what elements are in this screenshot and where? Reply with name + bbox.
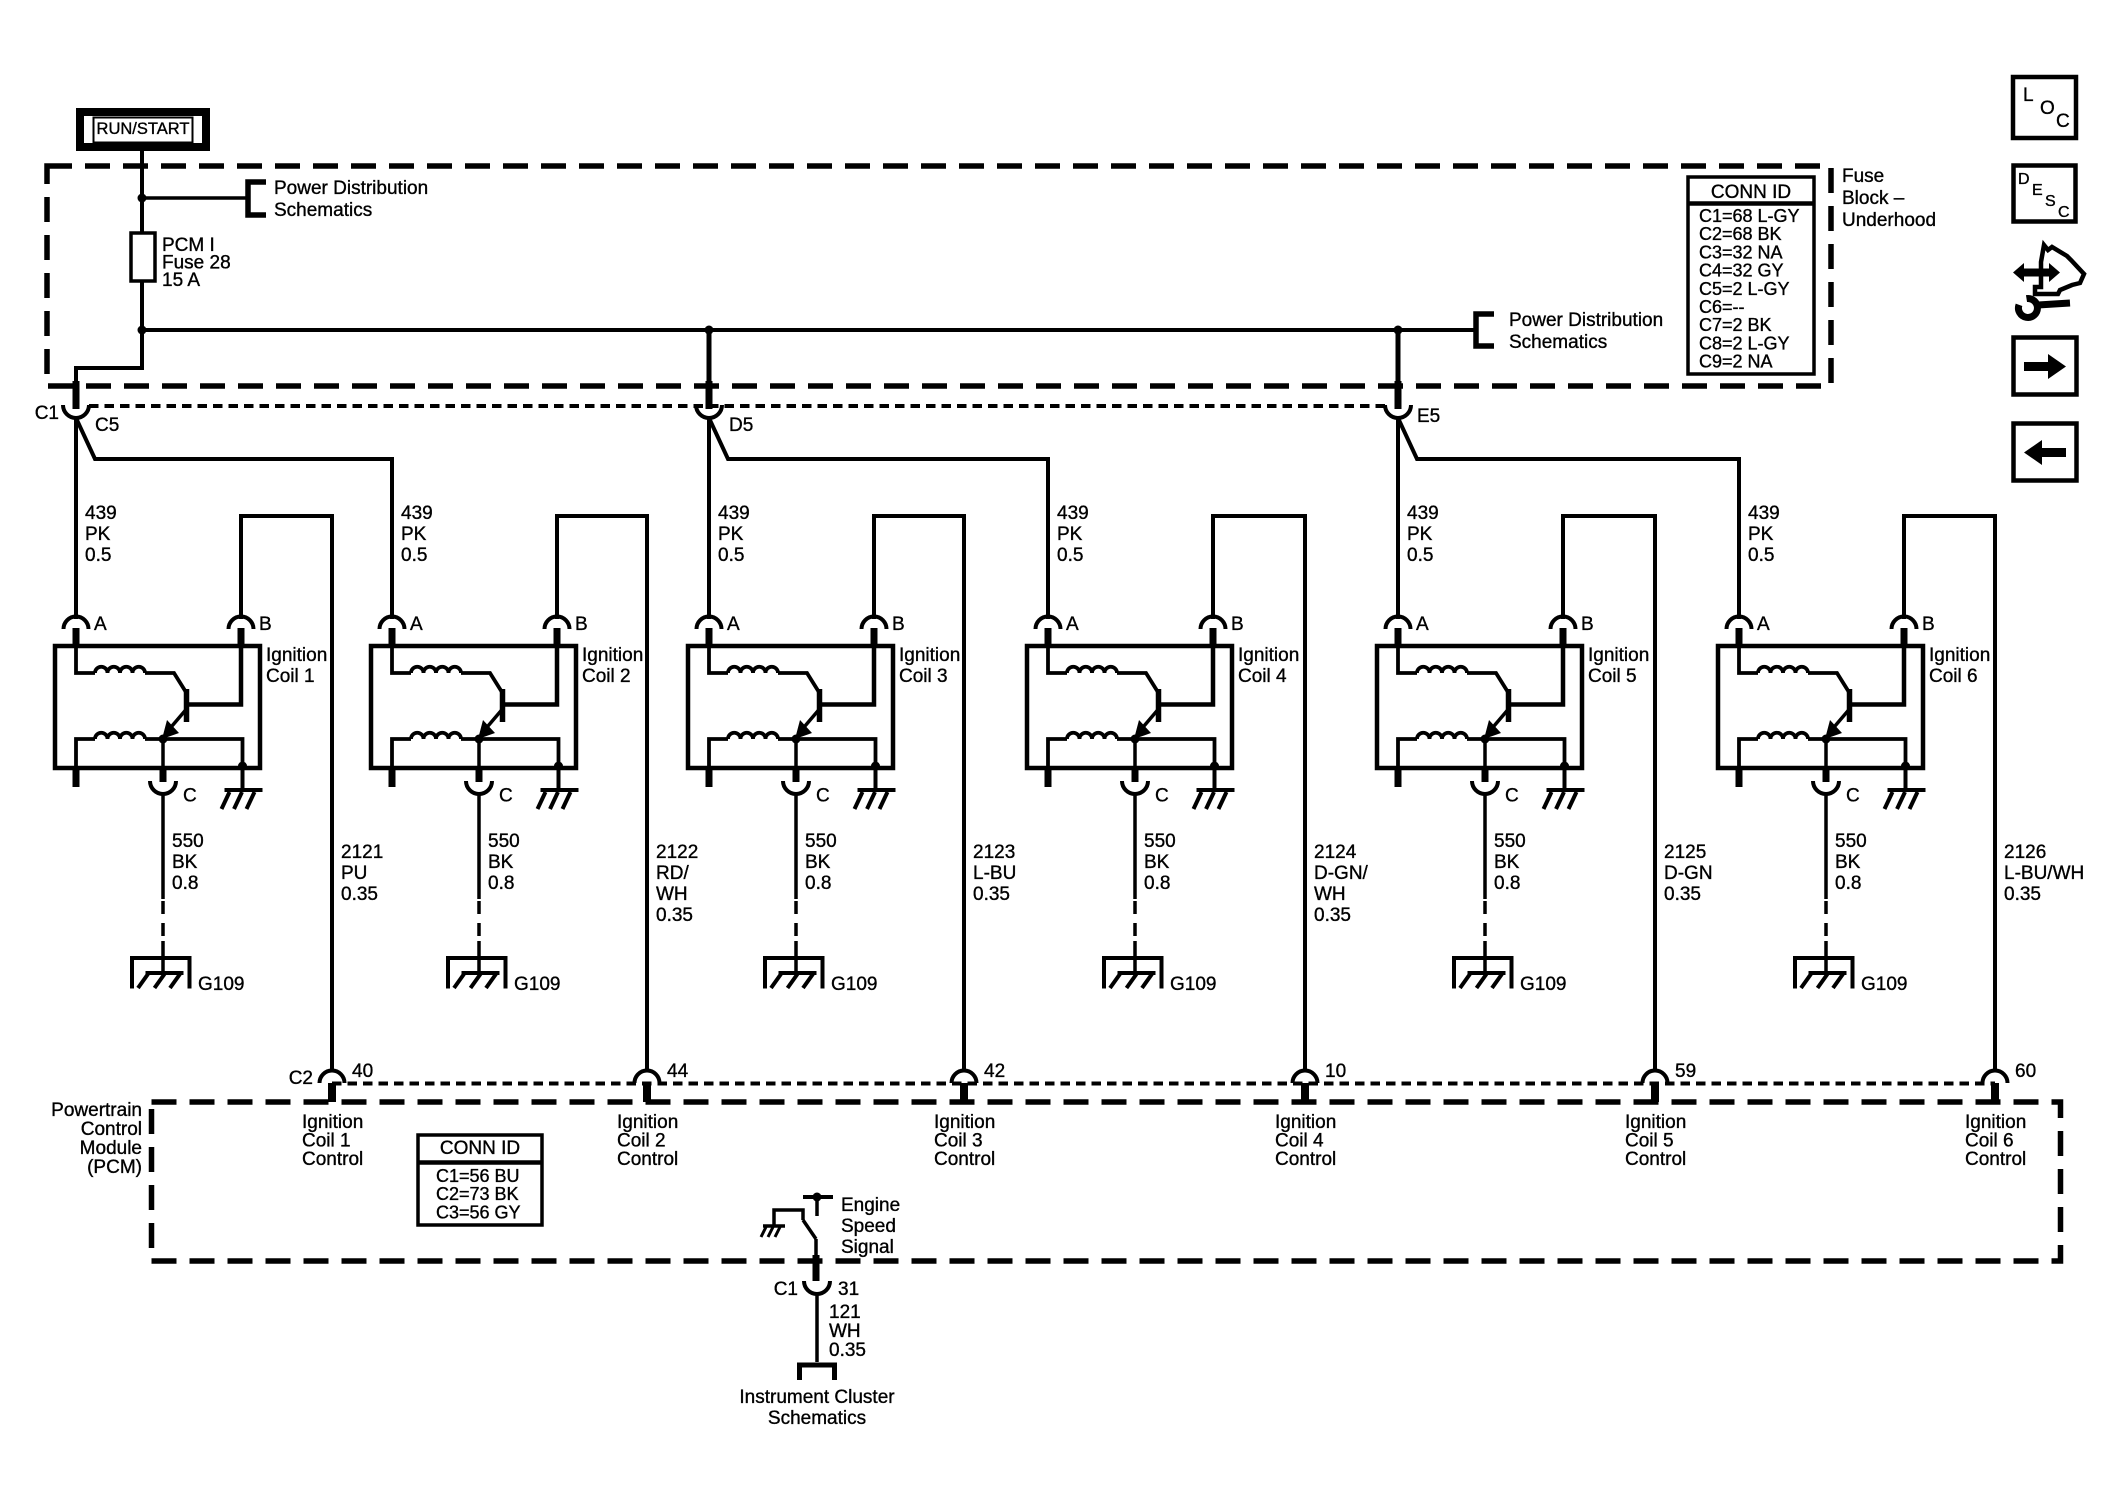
svg-text:0.35: 0.35 <box>656 905 693 926</box>
svg-text:C5: C5 <box>95 415 119 436</box>
svg-text:L-BU/WH: L-BU/WH <box>2004 863 2084 884</box>
svg-text:10: 10 <box>1325 1061 1346 1082</box>
svg-text:G109: G109 <box>514 974 560 995</box>
svg-text:0.8: 0.8 <box>805 873 831 894</box>
svg-text:C: C <box>183 786 197 807</box>
svg-text:G109: G109 <box>1170 974 1216 995</box>
svg-text:C: C <box>816 786 830 807</box>
svg-text:E5: E5 <box>1417 406 1440 427</box>
svg-text:C8=2 L-GY: C8=2 L-GY <box>1699 333 1790 353</box>
svg-text:B: B <box>1581 614 1594 635</box>
svg-text:L: L <box>2023 85 2034 106</box>
svg-text:Power Distribution: Power Distribution <box>274 178 428 199</box>
svg-text:31: 31 <box>838 1279 859 1300</box>
svg-text:PK: PK <box>718 524 744 545</box>
svg-text:42: 42 <box>984 1061 1005 1082</box>
svg-text:0.35: 0.35 <box>341 884 378 905</box>
svg-text:A: A <box>94 614 107 635</box>
svg-text:CONN ID: CONN ID <box>1711 182 1791 203</box>
svg-text:Coil 5: Coil 5 <box>1588 666 1637 687</box>
svg-text:550: 550 <box>172 831 204 852</box>
svg-text:0.8: 0.8 <box>1835 873 1861 894</box>
svg-text:PU: PU <box>341 863 367 884</box>
svg-text:C: C <box>1846 786 1860 807</box>
svg-text:WH: WH <box>656 884 688 905</box>
svg-text:C3=32 NA: C3=32 NA <box>1699 242 1783 262</box>
svg-text:C1=68 L-GY: C1=68 L-GY <box>1699 206 1800 226</box>
svg-text:Schematics: Schematics <box>1509 332 1607 353</box>
svg-text:Control: Control <box>302 1149 363 1170</box>
svg-text:C: C <box>1505 786 1519 807</box>
svg-text:C2=68 BK: C2=68 BK <box>1699 224 1782 244</box>
svg-text:439: 439 <box>718 503 750 524</box>
svg-text:WH: WH <box>1314 884 1346 905</box>
svg-text:BK: BK <box>172 852 198 873</box>
svg-text:Instrument Cluster: Instrument Cluster <box>739 1387 895 1408</box>
svg-text:550: 550 <box>488 831 520 852</box>
svg-text:Ignition: Ignition <box>266 645 327 666</box>
svg-text:D-GN/: D-GN/ <box>1314 863 1369 884</box>
svg-text:C4=32 GY: C4=32 GY <box>1699 261 1784 281</box>
svg-text:Schematics: Schematics <box>768 1408 866 1429</box>
svg-text:2122: 2122 <box>656 842 698 863</box>
svg-text:BK: BK <box>805 852 831 873</box>
svg-text:Ignition: Ignition <box>899 645 960 666</box>
svg-text:550: 550 <box>1494 831 1526 852</box>
svg-text:550: 550 <box>805 831 837 852</box>
svg-text:PK: PK <box>401 524 427 545</box>
svg-text:Control: Control <box>934 1149 995 1170</box>
svg-text:Powertrain: Powertrain <box>51 1100 142 1121</box>
svg-text:E: E <box>2032 182 2043 199</box>
svg-text:Coil 3: Coil 3 <box>899 666 948 687</box>
svg-text:Block –: Block – <box>1842 188 1905 209</box>
svg-text:Control: Control <box>1625 1149 1686 1170</box>
svg-text:439: 439 <box>1057 503 1089 524</box>
svg-text:C: C <box>1155 786 1169 807</box>
svg-text:0.35: 0.35 <box>2004 884 2041 905</box>
svg-text:Ignition: Ignition <box>1588 645 1649 666</box>
svg-text:439: 439 <box>401 503 433 524</box>
svg-text:L-BU: L-BU <box>973 863 1016 884</box>
svg-text:Ignition: Ignition <box>1238 645 1299 666</box>
svg-text:Coil 2: Coil 2 <box>582 666 631 687</box>
svg-text:D-GN: D-GN <box>1664 863 1713 884</box>
svg-text:C: C <box>499 786 513 807</box>
svg-text:2124: 2124 <box>1314 842 1357 863</box>
svg-text:WH: WH <box>829 1321 861 1342</box>
svg-text:B: B <box>1231 614 1244 635</box>
svg-text:Control: Control <box>1275 1149 1336 1170</box>
svg-text:D5: D5 <box>729 415 753 436</box>
svg-text:B: B <box>259 614 272 635</box>
svg-text:0.5: 0.5 <box>1407 545 1433 566</box>
svg-text:Schematics: Schematics <box>274 200 372 221</box>
svg-text:C1: C1 <box>35 403 59 424</box>
svg-text:C: C <box>2056 111 2070 132</box>
svg-text:C3=56 GY: C3=56 GY <box>436 1202 521 1222</box>
svg-text:A: A <box>1757 614 1770 635</box>
svg-text:Signal: Signal <box>841 1237 894 1258</box>
svg-text:Coil 6: Coil 6 <box>1929 666 1978 687</box>
svg-text:PK: PK <box>1057 524 1083 545</box>
svg-text:PK: PK <box>1407 524 1433 545</box>
svg-text:B: B <box>892 614 905 635</box>
svg-text:0.35: 0.35 <box>829 1340 866 1361</box>
svg-text:D: D <box>2018 171 2030 188</box>
svg-text:2126: 2126 <box>2004 842 2046 863</box>
svg-text:0.8: 0.8 <box>172 873 198 894</box>
svg-text:Coil 1: Coil 1 <box>266 666 315 687</box>
svg-text:0.8: 0.8 <box>1144 873 1170 894</box>
svg-text:40: 40 <box>352 1061 373 1082</box>
svg-text:0.35: 0.35 <box>973 884 1010 905</box>
svg-text:PK: PK <box>85 524 111 545</box>
svg-text:Underhood: Underhood <box>1842 210 1936 231</box>
svg-text:C9=2 NA: C9=2 NA <box>1699 352 1773 372</box>
svg-text:2123: 2123 <box>973 842 1015 863</box>
svg-text:550: 550 <box>1144 831 1176 852</box>
svg-text:(PCM): (PCM) <box>87 1157 142 1178</box>
svg-text:Fuse: Fuse <box>1842 166 1884 187</box>
svg-text:C1: C1 <box>774 1279 798 1300</box>
svg-text:Power Distribution: Power Distribution <box>1509 310 1663 331</box>
svg-text:C2: C2 <box>289 1068 313 1089</box>
svg-text:Ignition: Ignition <box>1929 645 1990 666</box>
svg-text:Control: Control <box>81 1119 142 1140</box>
svg-text:BK: BK <box>1835 852 1861 873</box>
svg-text:C2=73 BK: C2=73 BK <box>436 1184 519 1204</box>
svg-text:15 A: 15 A <box>162 270 200 291</box>
svg-text:BK: BK <box>488 852 514 873</box>
svg-text:O: O <box>2040 98 2055 119</box>
svg-text:121: 121 <box>829 1302 861 1323</box>
svg-text:0.5: 0.5 <box>1748 545 1774 566</box>
svg-text:PK: PK <box>1748 524 1774 545</box>
svg-text:C1=56 BU: C1=56 BU <box>436 1166 520 1186</box>
svg-text:G109: G109 <box>1861 974 1907 995</box>
svg-text:C6=--: C6=-- <box>1699 297 1745 317</box>
svg-text:Control: Control <box>617 1149 678 1170</box>
svg-text:C: C <box>2058 204 2070 221</box>
svg-text:0.35: 0.35 <box>1314 905 1351 926</box>
svg-text:Speed: Speed <box>841 1216 896 1237</box>
svg-text:G109: G109 <box>198 974 244 995</box>
svg-text:0.35: 0.35 <box>1664 884 1701 905</box>
svg-text:G109: G109 <box>831 974 877 995</box>
svg-text:C7=2 BK: C7=2 BK <box>1699 315 1772 335</box>
svg-text:0.5: 0.5 <box>718 545 744 566</box>
svg-text:BK: BK <box>1144 852 1170 873</box>
svg-text:A: A <box>1066 614 1079 635</box>
svg-text:0.8: 0.8 <box>488 873 514 894</box>
svg-text:439: 439 <box>1748 503 1780 524</box>
svg-text:BK: BK <box>1494 852 1520 873</box>
svg-text:60: 60 <box>2015 1061 2036 1082</box>
svg-text:A: A <box>727 614 740 635</box>
svg-text:44: 44 <box>667 1061 689 1082</box>
svg-text:0.8: 0.8 <box>1494 873 1520 894</box>
svg-text:439: 439 <box>85 503 117 524</box>
svg-text:Coil 4: Coil 4 <box>1238 666 1287 687</box>
svg-text:0.5: 0.5 <box>1057 545 1083 566</box>
svg-text:C5=2 L-GY: C5=2 L-GY <box>1699 279 1790 299</box>
svg-text:Module: Module <box>80 1138 142 1159</box>
svg-text:Ignition: Ignition <box>582 645 643 666</box>
svg-text:Engine: Engine <box>841 1195 900 1216</box>
svg-text:A: A <box>1416 614 1429 635</box>
svg-text:S: S <box>2045 193 2056 210</box>
svg-text:439: 439 <box>1407 503 1439 524</box>
svg-text:RUN/START: RUN/START <box>97 120 190 138</box>
svg-text:2125: 2125 <box>1664 842 1706 863</box>
svg-text:G109: G109 <box>1520 974 1566 995</box>
svg-text:B: B <box>575 614 588 635</box>
svg-text:A: A <box>410 614 423 635</box>
svg-text:Control: Control <box>1965 1149 2026 1170</box>
svg-text:CONN ID: CONN ID <box>440 1138 520 1159</box>
svg-text:59: 59 <box>1675 1061 1696 1082</box>
svg-text:0.5: 0.5 <box>85 545 111 566</box>
svg-text:2121: 2121 <box>341 842 383 863</box>
svg-text:550: 550 <box>1835 831 1867 852</box>
svg-text:RD/: RD/ <box>656 863 689 884</box>
svg-text:B: B <box>1922 614 1935 635</box>
svg-text:0.5: 0.5 <box>401 545 427 566</box>
